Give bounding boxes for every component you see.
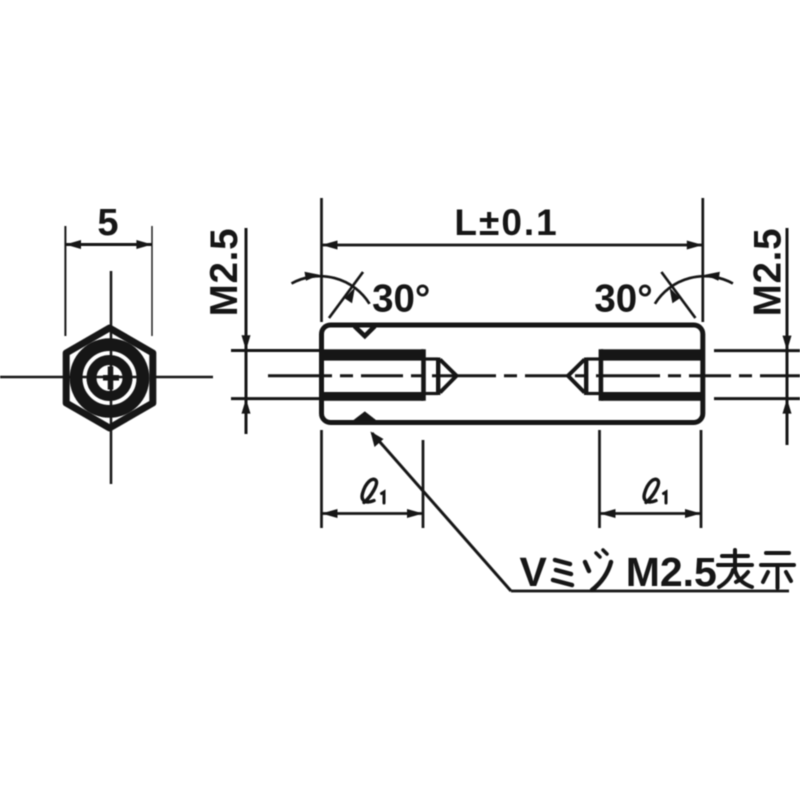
svg-text:30°: 30°	[372, 278, 430, 321]
svg-text:M2.5: M2.5	[626, 549, 717, 595]
svg-text:M2.5: M2.5	[203, 228, 246, 317]
svg-text:L±0.1: L±0.1	[454, 202, 558, 243]
svg-text:5: 5	[97, 202, 118, 244]
svg-text:V: V	[520, 549, 548, 595]
svg-text:30°: 30°	[594, 278, 652, 321]
svg-text:M2.5: M2.5	[747, 228, 790, 317]
